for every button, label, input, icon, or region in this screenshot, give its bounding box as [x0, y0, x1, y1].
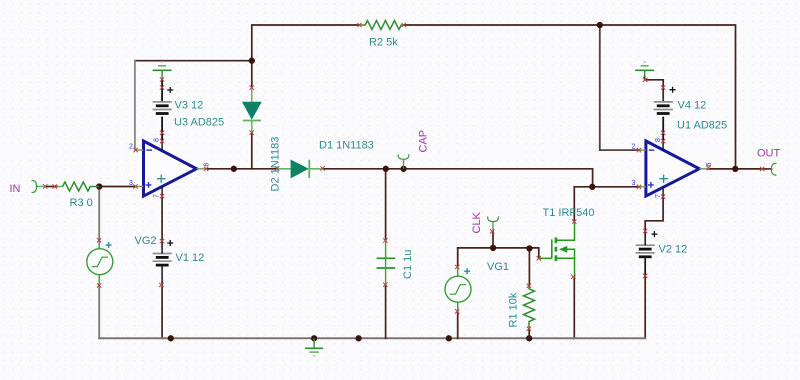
- x VG2 bottom: [97, 283, 101, 287]
- svg-text:T1 IRF540: T1 IRF540: [543, 207, 595, 219]
- node rail ground junction: [311, 335, 317, 341]
- x U3 pin8 b: [160, 139, 164, 143]
- x C1 top: [383, 238, 387, 242]
- battery V2: [636, 231, 658, 276]
- source VG1 plus: [464, 268, 470, 274]
- svg-text:R2 5k: R2 5k: [369, 36, 398, 48]
- battery V3: [153, 87, 174, 114]
- node U3 out junction: [231, 166, 237, 172]
- wire V4 to U1 pin8: [662, 118, 664, 142]
- diode D2: [243, 88, 261, 133]
- wire R1 branch: [528, 248, 530, 338]
- source VG2 plus: [106, 242, 112, 248]
- node C1 top junction: [383, 166, 389, 172]
- wire U3 feedback vertical (grey): [134, 61, 137, 150]
- x R1 bottom: [527, 327, 531, 331]
- x U1 pin7: [661, 194, 665, 198]
- ground above V3: [153, 62, 172, 80]
- x T1 drain: [572, 219, 576, 223]
- x U3 pin2: [133, 148, 137, 152]
- svg-text:V3 12: V3 12: [175, 100, 204, 112]
- x U3 out: [204, 167, 208, 171]
- port IN: [32, 181, 37, 193]
- svg-text:D2 1N1183: D2 1N1183: [270, 137, 282, 192]
- port CLK: [488, 217, 499, 232]
- node CAP junction: [400, 166, 406, 172]
- ground bottom rail: [305, 338, 323, 356]
- x R2 right: [402, 23, 406, 27]
- ground above V4: [635, 62, 654, 77]
- x OUT stub: [760, 167, 764, 171]
- x U1 pin8 a: [661, 131, 665, 135]
- x T1 source: [571, 275, 575, 279]
- svg-text:CAP: CAP: [418, 130, 430, 153]
- wire bottom rail: [99, 337, 645, 339]
- x R2 left: [357, 23, 361, 27]
- x V3 top a: [160, 77, 164, 81]
- x U1 pin8 b: [661, 139, 665, 143]
- wire VG2 branch (grey): [98, 187, 100, 339]
- wire U3 output to D2/D1: [206, 168, 277, 170]
- wire IN port stub: [36, 186, 62, 188]
- svg-text:8: 8: [655, 138, 662, 142]
- node input junction: [96, 183, 102, 189]
- transistor T1: [539, 222, 575, 277]
- source VG1: [445, 267, 471, 311]
- node D2 top junction: [249, 58, 255, 64]
- wire U1 pin7 jog to V2: [645, 197, 663, 231]
- x U1 pin2: [637, 148, 641, 152]
- node rail V1 junction: [168, 335, 174, 341]
- x V4 top a: [643, 78, 647, 82]
- wire T1 drain up: [573, 187, 575, 222]
- x V2 bottom: [643, 274, 647, 278]
- svg-text:IN: IN: [10, 183, 21, 195]
- wire CLK horizontal: [458, 247, 530, 249]
- wire top rail R2 right segment: [404, 25, 736, 169]
- x D2 top: [250, 85, 254, 89]
- x U3 pin8 a: [160, 131, 164, 135]
- wire C1 branch: [385, 169, 387, 338]
- svg-text:R1 10k: R1 10k: [507, 292, 519, 327]
- svg-text:3: 3: [129, 180, 133, 187]
- x U3 pin3: [133, 184, 137, 188]
- x R1 top: [527, 284, 531, 288]
- wire V3 column: [161, 80, 163, 142]
- resistor R3: [63, 182, 100, 191]
- wire U3 pin7 to V1: [161, 196, 163, 338]
- wire T1 gate jog: [529, 248, 538, 258]
- svg-text:2: 2: [632, 144, 636, 151]
- PIN CROSS MARKS: [43, 23, 764, 331]
- port OUT: [771, 163, 776, 175]
- wire main line D1 to corner: [323, 169, 593, 187]
- wire OUT stub: [762, 168, 771, 170]
- wire R3 to U3 pin3: [99, 186, 135, 188]
- wire top rail R2 left segment: [252, 25, 360, 61]
- wire U3 feedback horizontal: [135, 60, 252, 62]
- node rail mid junction: [355, 335, 361, 341]
- wire VG1 branch: [457, 248, 459, 338]
- x CLK stem: [490, 229, 494, 233]
- x VG2 top: [97, 238, 101, 242]
- capacitor C1: [377, 241, 396, 285]
- svg-text:3: 3: [632, 180, 636, 187]
- svg-text:VG1: VG1: [487, 261, 509, 273]
- resistor R2: [360, 21, 404, 30]
- x R3 left: [53, 184, 57, 188]
- x D1 left: [275, 166, 279, 170]
- x D2 bottom: [250, 130, 254, 134]
- x V1 bottom: [159, 283, 163, 287]
- svg-text:R3 0: R3 0: [70, 197, 93, 209]
- x C1 bottom: [383, 283, 387, 287]
- wire CLK branch: [492, 231, 494, 248]
- x VG1 top: [455, 265, 459, 269]
- x IN stub: [43, 184, 47, 188]
- wire D2 branch vertical: [251, 61, 253, 169]
- node output junction: [732, 166, 738, 172]
- wire V4 top jog: [645, 77, 664, 102]
- svg-text:7: 7: [154, 194, 161, 198]
- x V3 top b: [160, 85, 164, 89]
- svg-text:6: 6: [204, 163, 211, 167]
- svg-text:V4 12: V4 12: [678, 100, 707, 112]
- wire U1 output: [709, 168, 763, 170]
- svg-text:VG2: VG2: [135, 235, 157, 247]
- node rail VG1 junction: [446, 335, 452, 341]
- wire U1 feedback vertical: [600, 25, 640, 150]
- op-amp U3: [129, 138, 211, 198]
- svg-text:2: 2: [129, 144, 133, 151]
- node R2 right junction: [597, 22, 603, 28]
- svg-text:V1 12: V1 12: [176, 252, 205, 264]
- x T1 gate: [537, 256, 541, 260]
- wire input net: [45, 186, 57, 188]
- node U1 pin3 junction: [589, 184, 595, 190]
- op-amp U1: [632, 138, 713, 198]
- svg-text:D1 1N1183: D1 1N1183: [319, 140, 374, 152]
- node rail R1 junction: [526, 335, 532, 341]
- node CLK junction: [490, 245, 496, 251]
- wire V2 to rail: [644, 260, 646, 339]
- x D1 right: [320, 166, 324, 170]
- svg-text:U3 AD825: U3 AD825: [174, 117, 224, 129]
- wire T1 source down to rail: [573, 277, 575, 339]
- x V1 top: [160, 239, 164, 243]
- wire U1 pin3 horizontal: [574, 186, 639, 188]
- x U1 out: [706, 166, 710, 170]
- svg-text:8: 8: [154, 138, 161, 142]
- x V2 top: [643, 229, 647, 233]
- x U3 pin7: [160, 194, 164, 198]
- source VG2: [87, 240, 113, 285]
- x VG1 bottom: [455, 309, 459, 313]
- battery V4: [654, 87, 676, 114]
- svg-text:C1 1u: C1 1u: [402, 250, 414, 279]
- svg-text:CLK: CLK: [471, 211, 483, 233]
- x V4 top b: [661, 85, 665, 89]
- battery V1: [153, 240, 174, 285]
- resistor R1: [524, 286, 535, 329]
- node R1 top junction: [526, 245, 532, 251]
- svg-text:OUT: OUT: [757, 148, 781, 160]
- port CAP: [398, 154, 409, 169]
- diode D1: [277, 160, 323, 178]
- svg-text:V2 12: V2 12: [659, 244, 688, 256]
- x U1 pin3: [637, 185, 641, 189]
- svg-text:U1 AD825: U1 AD825: [677, 119, 727, 131]
